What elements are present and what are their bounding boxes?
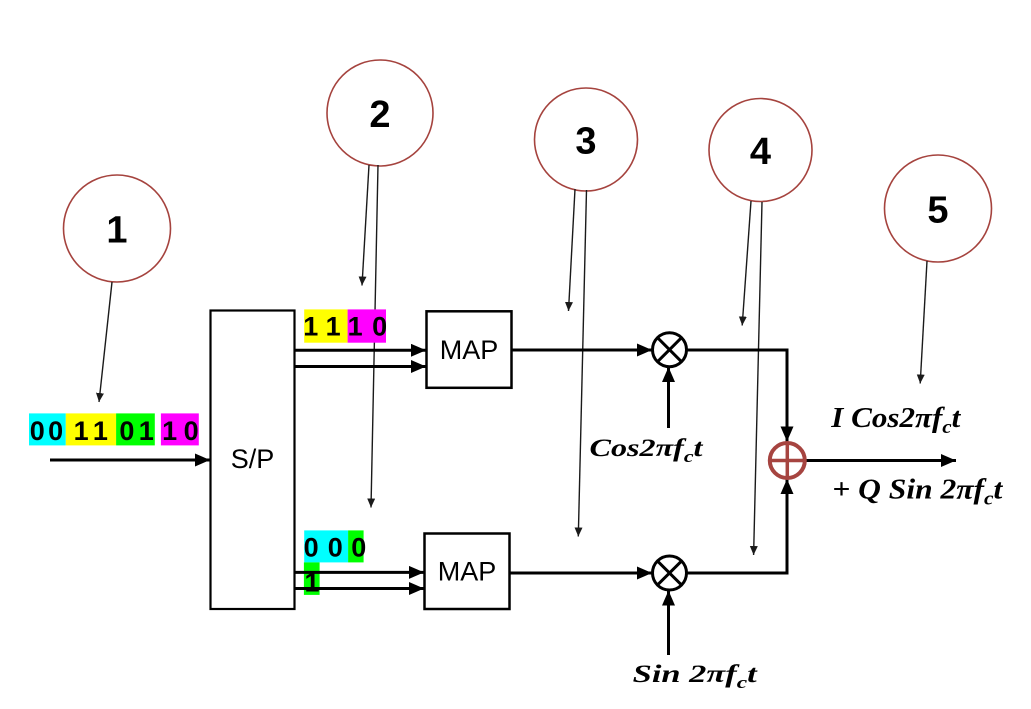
svg-text:1: 1 <box>74 416 89 446</box>
svg-text:0: 0 <box>184 416 199 446</box>
svg-text:Sin 2πfct: Sin 2πfct <box>633 661 758 692</box>
svg-text:0: 0 <box>351 533 366 563</box>
svg-text:0: 0 <box>119 416 134 446</box>
svg-text:S/P: S/P <box>231 444 275 474</box>
svg-text:1: 1 <box>139 416 154 446</box>
svg-text:0: 0 <box>372 312 387 342</box>
svg-text:MAP: MAP <box>440 335 499 365</box>
svg-text:0: 0 <box>30 416 45 446</box>
svg-text:1: 1 <box>162 416 177 446</box>
svg-text:1: 1 <box>106 210 127 252</box>
svg-text:0: 0 <box>304 533 319 563</box>
svg-text:MAP: MAP <box>438 557 497 587</box>
svg-text:1: 1 <box>326 312 341 342</box>
svg-text:Cos2πfct: Cos2πfct <box>590 435 704 466</box>
svg-text:1: 1 <box>348 312 363 342</box>
svg-text:0: 0 <box>328 533 343 563</box>
svg-text:1: 1 <box>304 568 319 598</box>
svg-text:+ Q Sin 2πfct: + Q Sin 2πfct <box>832 475 1003 510</box>
svg-text:5: 5 <box>927 190 948 232</box>
svg-text:0: 0 <box>48 416 63 446</box>
svg-text:1: 1 <box>93 416 108 446</box>
svg-text:1: 1 <box>303 312 318 342</box>
svg-text:2: 2 <box>369 94 390 136</box>
svg-text:3: 3 <box>575 121 596 163</box>
svg-text:4: 4 <box>750 131 771 173</box>
svg-text:I Cos2πfct: I Cos2πfct <box>830 403 961 438</box>
